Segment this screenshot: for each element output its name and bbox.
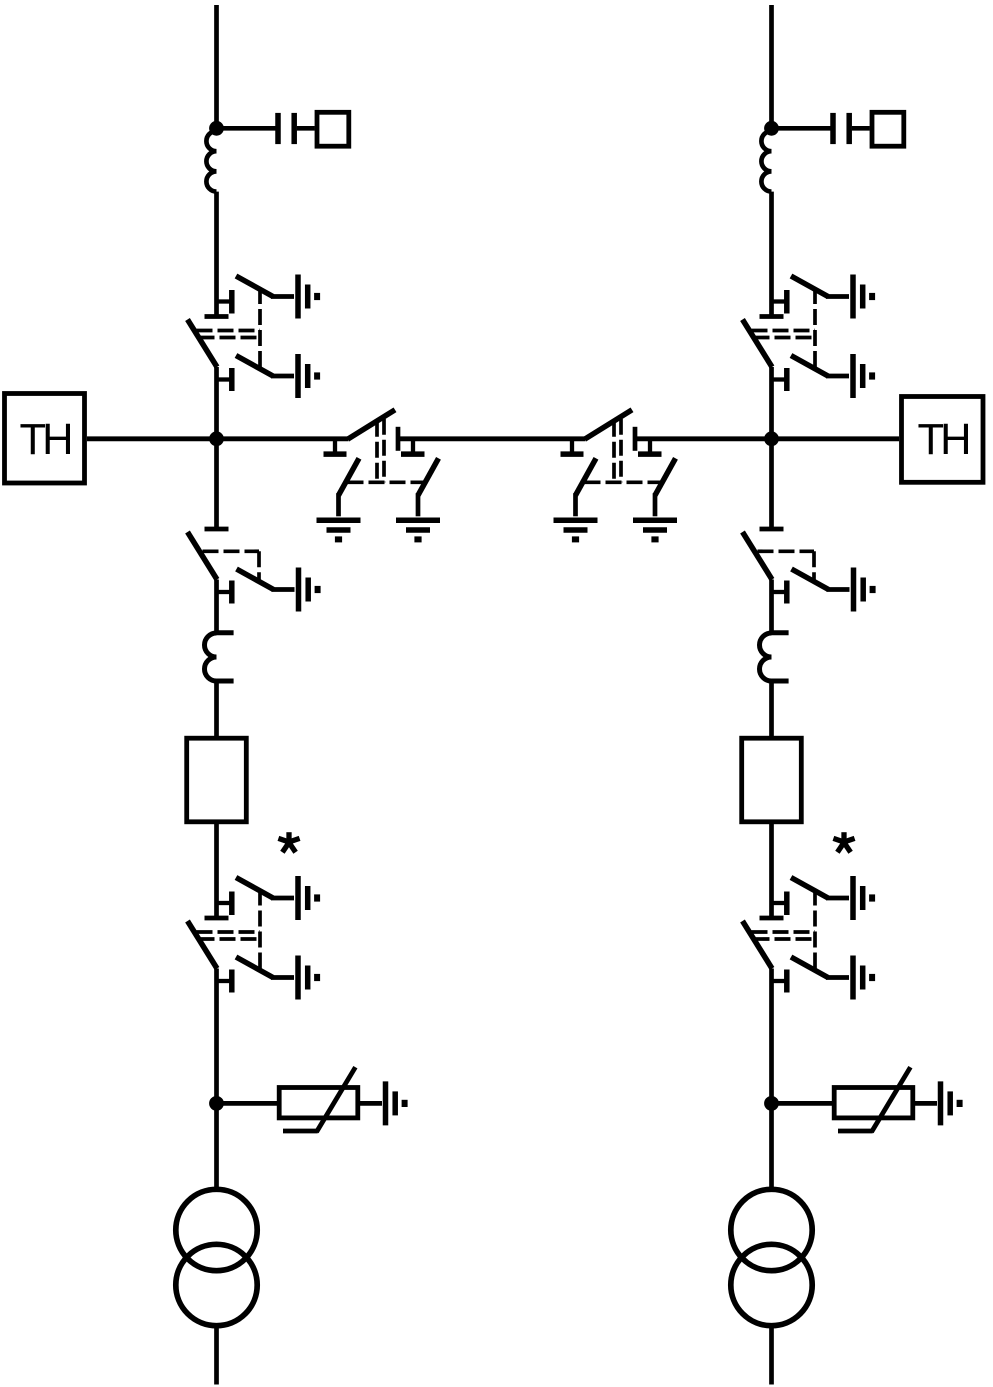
svg-text:TH: TH — [918, 416, 969, 464]
svg-text:TH: TH — [20, 416, 71, 464]
